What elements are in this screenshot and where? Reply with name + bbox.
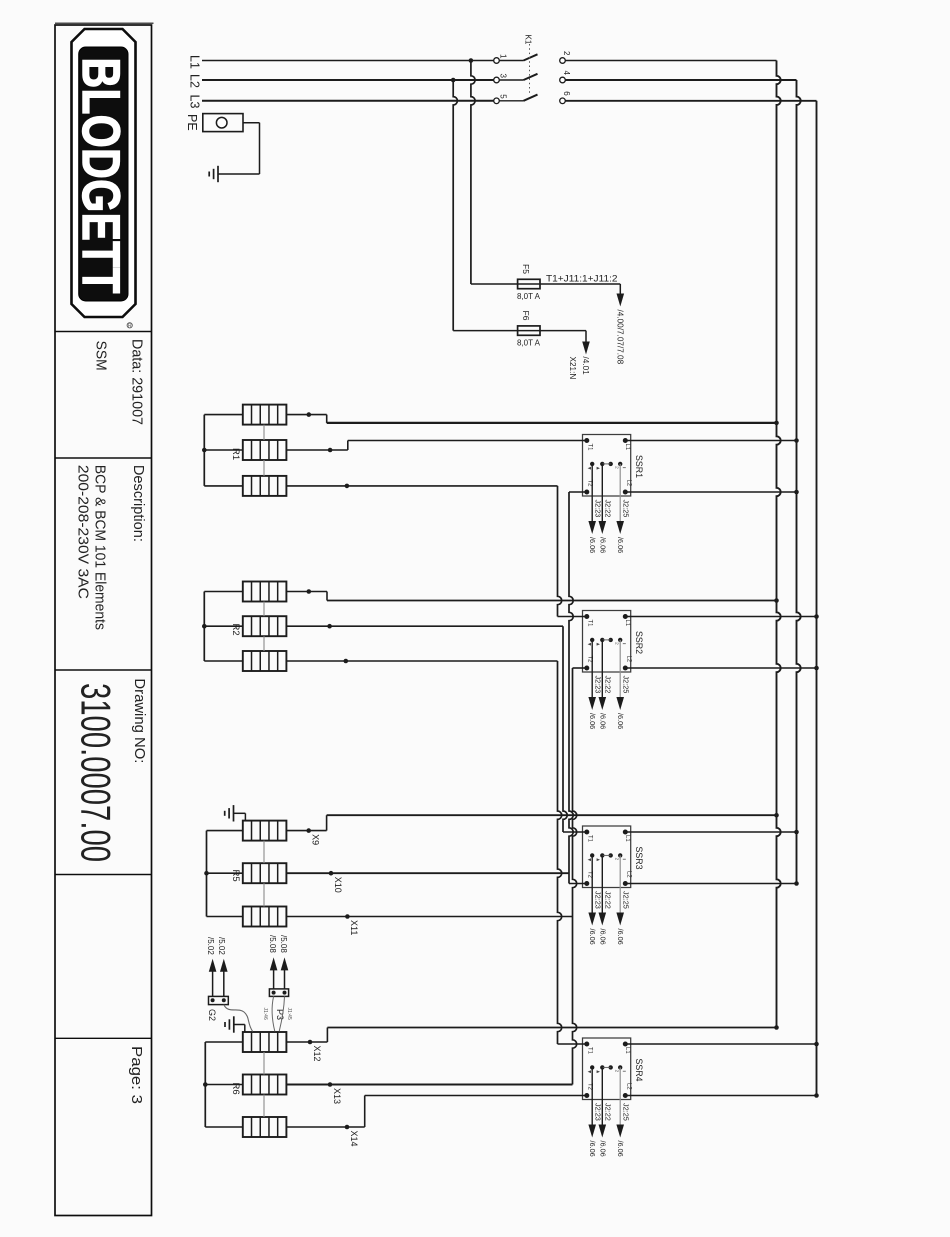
svg-text:T2: T2 [586,1083,592,1091]
svg-text:T2: T2 [586,480,592,488]
svg-text:Data: 291007: Data: 291007 [128,339,144,425]
svg-text:SSR1: SSR1 [634,455,644,478]
svg-text:T1: T1 [586,620,592,628]
svg-text:G2: G2 [207,1009,217,1021]
svg-text:/6.06: /6.06 [616,537,625,553]
svg-text:J2:25: J2:25 [621,891,630,909]
svg-text:SSR3: SSR3 [634,847,644,870]
svg-text:8,0T A: 8,0T A [517,292,541,301]
svg-text:2: 2 [615,1070,620,1073]
svg-text:J2:25: J2:25 [621,676,630,694]
svg-text:X9: X9 [311,834,321,845]
svg-text:SSR4: SSR4 [634,1059,644,1082]
svg-text:F5: F5 [521,264,531,274]
svg-text:L2: L2 [626,1083,632,1090]
svg-text:4: 4 [562,71,571,76]
svg-text:6: 6 [562,91,571,96]
svg-text:T1: T1 [586,444,592,452]
svg-text:R1: R1 [230,448,241,460]
svg-text:/6.06: /6.06 [588,929,597,945]
svg-text:L1: L1 [624,444,630,451]
svg-text:/6.06: /6.06 [616,929,625,945]
svg-text:J2:22: J2:22 [604,676,613,694]
svg-text:J2:23: J2:23 [593,500,602,518]
svg-text:J2:23: J2:23 [593,1103,602,1121]
svg-text:2: 2 [615,858,620,861]
svg-text:L1: L1 [624,835,630,842]
svg-text:5: 5 [498,94,507,99]
svg-text:R6: R6 [230,1083,241,1095]
svg-text:/6.06: /6.06 [588,713,597,729]
svg-text:L2: L2 [626,480,632,487]
svg-text:/6.06: /6.06 [598,1141,607,1157]
svg-text:J2:22: J2:22 [604,891,613,909]
svg-text:L2: L2 [626,871,632,878]
svg-text:L1: L1 [188,55,202,69]
svg-text:J2:23: J2:23 [593,676,602,694]
svg-text:2: 2 [615,642,620,645]
svg-text:/6.06: /6.06 [598,713,607,729]
svg-text:8,0T A: 8,0T A [517,339,541,348]
svg-text:T2: T2 [586,656,592,664]
svg-text:/5.08: /5.08 [268,935,277,953]
svg-text:T2: T2 [586,871,592,879]
svg-text:/6.06: /6.06 [598,537,607,553]
svg-text:J2:25: J2:25 [621,1103,630,1121]
svg-text:R: R [128,323,132,329]
svg-text:3100.0007.00: 3100.0007.00 [73,683,120,862]
svg-text:Description:: Description: [130,465,146,542]
svg-text:Page: 3: Page: 3 [128,1046,144,1104]
svg-text:BLODGETT: BLODGETT [71,58,130,294]
svg-text:/4.01: /4.01 [581,357,590,376]
svg-text:X13: X13 [332,1088,342,1104]
svg-text:J2:23: J2:23 [593,891,602,909]
svg-text:J1:45: J1:45 [286,1008,292,1020]
svg-text:L1: L1 [624,620,630,627]
svg-text:2: 2 [615,466,620,469]
svg-text:X12: X12 [312,1046,322,1062]
svg-text:X10: X10 [333,877,343,893]
svg-text:J1:46: J1:46 [262,1008,268,1020]
svg-text:L1: L1 [624,1047,630,1054]
svg-text:X14: X14 [349,1131,359,1147]
svg-text:J2:22: J2:22 [604,500,613,518]
svg-text:R5: R5 [230,870,241,882]
svg-text:L2: L2 [188,74,202,88]
svg-text:200-208-230V 3AC: 200-208-230V 3AC [75,465,91,599]
svg-text:J2:25: J2:25 [621,500,630,518]
svg-text:SSR2: SSR2 [634,631,644,654]
svg-text:/6.06: /6.06 [588,1141,597,1157]
svg-text:/6.06: /6.06 [616,1141,625,1157]
svg-text:F6: F6 [521,311,531,321]
svg-text:/5.08: /5.08 [279,935,288,953]
svg-text:/6.06: /6.06 [616,713,625,729]
svg-text:L3: L3 [188,95,202,109]
svg-text:R2: R2 [230,624,241,636]
svg-text:Drawing NO:: Drawing NO: [131,678,147,763]
svg-text:K1: K1 [524,35,533,45]
svg-text:/5.02: /5.02 [217,937,226,955]
svg-text:1: 1 [498,54,507,59]
svg-text:2: 2 [562,51,571,56]
svg-text:J2:22: J2:22 [604,1103,613,1121]
svg-text:/6.06: /6.06 [598,929,607,945]
svg-text:PE: PE [185,114,199,131]
svg-text:/6.06: /6.06 [588,537,597,553]
svg-text:X21:N: X21:N [568,357,577,380]
svg-text:3: 3 [498,74,507,79]
svg-text:BCP & BCM 101 Elements: BCP & BCM 101 Elements [92,465,108,630]
svg-text:/4.00/7.07/7.08: /4.00/7.07/7.08 [616,310,625,365]
svg-text:T1+J11:1+J11:2: T1+J11:1+J11:2 [546,274,618,285]
svg-text:/5.02: /5.02 [206,937,215,955]
svg-text:X11: X11 [349,920,359,935]
svg-text:L2: L2 [626,656,632,663]
svg-text:T1: T1 [586,1047,592,1055]
svg-text:SSM: SSM [93,341,109,371]
svg-text:T1: T1 [586,835,592,843]
